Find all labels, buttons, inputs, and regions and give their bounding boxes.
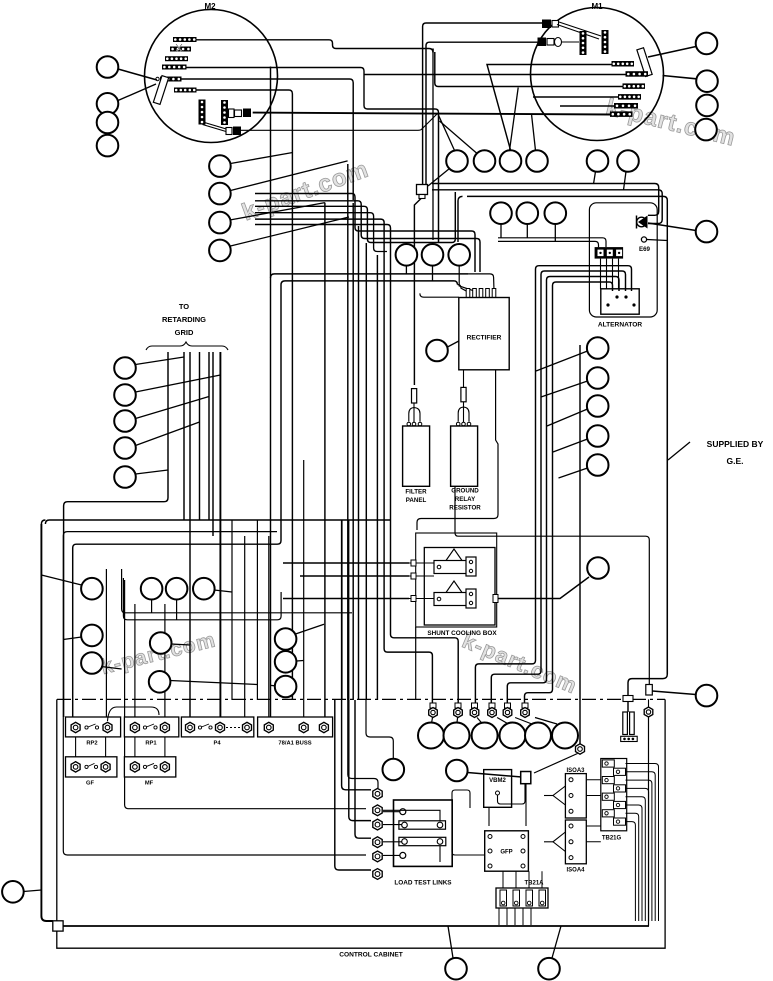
callout circle top-mid 1	[446, 150, 468, 172]
leader to VBM2 connector	[468, 773, 522, 778]
callout circle right-top 3	[696, 95, 718, 117]
wire x244 down to P4	[244, 536, 246, 717]
callout circle top-mid 2	[474, 150, 496, 172]
wire connector down to GFP right	[525, 784, 527, 826]
terminal bolt 5 on cabinet line	[505, 703, 511, 708]
callout circle near VBM2 b	[446, 760, 468, 782]
svg-text:SUPPLIED BY: SUPPLIED BY	[707, 439, 764, 449]
wire M1-H5 left stub	[560, 105, 614, 107]
leader mid-left 3	[231, 203, 325, 220]
bus pair from connector to E69 corner (upper)	[432, 184, 659, 216]
hex terminal LTL-5	[373, 851, 382, 862]
callout circle top-mid 4	[526, 150, 548, 172]
terminal strip M2-S6	[174, 88, 197, 93]
wire LTL-5 top hex	[348, 700, 378, 788]
TB21G terminal strip	[601, 759, 627, 831]
staircase wire 5 to filter-area vertical	[255, 219, 432, 703]
svg-text:E69: E69	[639, 246, 651, 253]
VBM2 connector square	[521, 772, 531, 784]
svg-text:P4: P4	[213, 741, 221, 747]
callout circle right-mid 4	[587, 425, 609, 447]
terminal bolt 4 on cabinet line	[489, 703, 495, 708]
svg-text:RP1: RP1	[145, 741, 157, 747]
horizontal feeder into shunt 2	[300, 575, 409, 577]
terminal strip P4	[181, 717, 253, 737]
retarding grid callout 4	[114, 437, 136, 459]
leader from circle 1 into M2 (to brush bar contact)	[118, 69, 157, 80]
svg-text:GFP: GFP	[500, 850, 512, 856]
shunt cooling box enclosure	[416, 533, 497, 627]
wire x106 down	[105, 569, 107, 717]
ISOA4 box	[565, 820, 586, 864]
terminal bolt 3 on cabinet line	[472, 703, 478, 708]
stub from circle 2 down to bus	[526, 224, 528, 238]
wire inner-area to load links (via x63)	[63, 532, 366, 855]
svg-text:RECTIFIER: RECTIFIER	[467, 335, 502, 342]
feeder stub x438 thick ending at circle	[438, 116, 440, 242]
alternator box	[601, 289, 639, 314]
leader right-top 1 to M1 bar	[648, 47, 696, 58]
left main vertical bus x41 (thick)	[41, 524, 52, 921]
vertical terminal strip M2-V2	[221, 100, 228, 125]
bottom bus wire y926	[63, 925, 649, 927]
wire E69 dot to bus	[647, 240, 667, 241]
filter panel box	[403, 426, 430, 486]
callout circle mid-left 3	[209, 212, 231, 234]
wire x257 down	[256, 520, 258, 700]
leader bolt 2 to circle	[456, 718, 459, 725]
link bar 2	[399, 837, 446, 845]
leader bottom 2	[552, 926, 561, 958]
detail circle M2 outline	[145, 10, 278, 143]
rectifier pins	[466, 289, 470, 298]
callout circle row left-top 1	[97, 56, 119, 78]
callout circle lower-right g3	[275, 676, 297, 698]
terminal bolt right of fuse	[644, 707, 653, 717]
feeder wire alternator-to-shunt 3	[507, 277, 619, 704]
callout circle left of rectifier 3	[448, 244, 470, 266]
leader bolt 5 to circle	[515, 718, 532, 725]
alternator feeder drops from strip	[600, 259, 602, 289]
shunt input stub 1	[409, 562, 434, 564]
jumper RP2 to RP1	[108, 707, 160, 721]
callout circle mid-left 2	[209, 183, 231, 205]
wire ground-relay to right terminal (via y536)	[455, 486, 649, 686]
bus line to right long vertical x667	[467, 196, 667, 695]
wire M2-J2 jog line	[241, 114, 437, 130]
terminal strip M2-S4	[162, 65, 187, 70]
wire x134 down to RP1	[134, 604, 136, 717]
wire rectifier bottom to shunt enclosure via y518	[417, 370, 498, 530]
leader to top-mid 1 from vertical bus	[438, 113, 456, 152]
vertical bus pair corner to M1 connector J2	[426, 42, 538, 185]
terminal strip RP2	[66, 717, 121, 737]
retarding grid drop wire x199	[199, 352, 201, 520]
callout circle right-bottom	[696, 685, 718, 707]
leader rg5	[136, 470, 169, 474]
fuse above filter panel	[412, 389, 417, 403]
leader cabinet-left circle	[24, 890, 42, 892]
callout circle row left of rectifier 1	[396, 244, 418, 266]
vertical terminal strip M1-V2	[602, 30, 609, 54]
TB21A drop wires	[498, 908, 500, 925]
leader below-M1-left stub	[594, 172, 596, 185]
leader g2	[296, 660, 303, 663]
wire x268 down to 78A1	[268, 536, 270, 717]
callout circle lower-left row b1	[141, 578, 163, 600]
svg-text:G.E.: G.E.	[726, 456, 743, 466]
shunt input stub 2	[409, 575, 434, 577]
callout circle bottom 1	[445, 958, 467, 980]
wire link bar 2 right post down	[439, 846, 441, 862]
retarding grid callout 2	[114, 384, 136, 406]
leader bolt 3 to circle	[477, 718, 483, 725]
wire y619 from x123 corner to inner edge stub	[123, 578, 281, 620]
callout circle left of rectifier 2	[422, 244, 444, 266]
leader top-mid 3 riser	[510, 88, 519, 151]
leader from circle 2 into M2	[118, 84, 156, 101]
fuse assembly right (twin tubes)	[623, 712, 628, 735]
link bar 1	[399, 821, 446, 829]
wire from filter feeder to rectifier corner	[420, 293, 459, 297]
wire M2-S4 staircase to rectifier feed	[187, 68, 439, 117]
wire rectifier to ground fuse	[463, 370, 465, 387]
junction square on bottom bus	[53, 921, 63, 931]
load test links box	[394, 800, 453, 866]
staircase wire 6 to shunt-area vertical	[255, 225, 458, 704]
svg-text:VBM2: VBM2	[489, 778, 506, 784]
wire x124 to load links (y810)	[125, 580, 366, 809]
callout circle cabinet left	[2, 881, 24, 903]
callout circle left 2	[97, 93, 119, 115]
contact in links box bottom	[400, 852, 406, 858]
TB21A terminal block	[496, 888, 548, 908]
svg-text:RESISTOR: RESISTOR	[449, 505, 481, 512]
inner enclosure box	[73, 281, 458, 717]
long vertical x377	[376, 255, 378, 700]
leader bolt 1 to circle	[431, 718, 432, 725]
retarding grid drop wire x209	[208, 352, 210, 520]
ground relay resistor box	[451, 426, 478, 486]
callout circle right-mid 1	[587, 337, 609, 359]
terminal strip 78/A1 BUSS	[258, 717, 333, 737]
detail circle M1 outline	[531, 8, 664, 141]
horizontal feeder into shunt 3	[283, 598, 409, 600]
leader right-mid 1	[536, 351, 588, 371]
wire fuse base down to bottom bus	[648, 717, 650, 926]
callout circle above rectifier 3	[545, 202, 567, 224]
rectifier pin feed from inner box edge	[457, 285, 468, 299]
leader e	[171, 644, 190, 645]
ISOA3 box	[565, 774, 586, 818]
leader c	[63, 637, 81, 640]
connector assembly M2-J1	[229, 109, 235, 118]
stem from square to fuse	[627, 702, 629, 713]
feeder wire alternator-to-shunt 1	[475, 266, 631, 703]
callout circle right-top 4	[695, 119, 717, 141]
ISOA3 bracket	[553, 786, 565, 805]
retarding grid callout 5	[114, 466, 136, 488]
wire into LTL-6	[335, 700, 371, 870]
leader rg3	[136, 397, 210, 419]
wire GFP left loop	[452, 790, 485, 855]
big callout circle bottom-row 5	[525, 723, 551, 749]
ground relay pin fan	[458, 402, 469, 422]
leader right-mid 3	[547, 409, 588, 426]
terminal strip M2-S1	[173, 37, 197, 42]
callout circle right-mid 2	[587, 367, 609, 389]
callout circle bottom 2	[538, 958, 560, 980]
control cabinet top border (dash-dot)	[57, 698, 665, 700]
connector assembly M2-J2	[203, 125, 227, 132]
wire M1-H3 to riser arc	[435, 52, 623, 87]
retarding grid drop wire x168	[64, 352, 168, 717]
svg-text:CONTROL CABINET: CONTROL CABINET	[339, 952, 403, 959]
contact in links box top	[400, 809, 406, 815]
leader circle-a riser	[366, 700, 393, 759]
big callout circle bottom-row 2	[444, 723, 470, 749]
outer enclosure top edge branch	[271, 274, 469, 278]
brace for retarding grid	[146, 342, 228, 350]
staircase wire 3	[255, 192, 455, 243]
terminal strip M2-S2	[170, 47, 191, 52]
feeder stub x433 ending above circle	[432, 49, 434, 241]
big callout circle bottom-row 6	[552, 723, 578, 749]
svg-text:RP2: RP2	[86, 741, 97, 747]
connector T4 at top of rectifier feeders	[417, 185, 428, 195]
leader supplied-by-GE	[668, 442, 690, 460]
callout circle lower-right g2	[275, 651, 297, 673]
wire from LTL-2 to link bar right post	[383, 810, 440, 821]
GF drop wires	[75, 737, 77, 757]
callout circle right-mid 3	[587, 395, 609, 417]
wire x232 down	[231, 520, 233, 700]
long vertical x358	[358, 226, 360, 700]
callout circle lower-left row b2	[166, 578, 188, 600]
retarding grid drop wire x184	[183, 352, 185, 520]
callout circle near VBM2	[383, 759, 405, 781]
links internal wires	[383, 811, 400, 813]
retarding grid callout 1	[114, 357, 136, 379]
outer enclosure box (control group)	[270, 67, 272, 718]
big callout circle bottom-row 3	[472, 723, 498, 749]
ISOA4 bracket	[553, 832, 565, 852]
VBM2 internal contact	[496, 791, 500, 795]
svg-text:FILTER: FILTER	[405, 489, 427, 496]
leader g3	[271, 684, 276, 686]
VBM2 box	[484, 770, 512, 808]
retarding grid drop wire x220 (thick)	[219, 352, 221, 717]
wire M1-H2 bus (thick)	[364, 74, 626, 76]
svg-text:GRID: GRID	[175, 328, 194, 337]
leader rg1	[136, 357, 185, 365]
big callout circle bottom-row 1	[418, 723, 444, 749]
leader d	[101, 667, 121, 670]
feeder wire alternator-to-shunt 2	[491, 271, 625, 703]
fuse above ground relay resistor	[461, 387, 466, 401]
staircase wire 2	[255, 201, 480, 272]
connector assembly M1-J2	[538, 38, 547, 47]
leader bottom 1	[448, 926, 453, 958]
leader b2 stub	[176, 600, 178, 620]
leader mid-left 2	[231, 161, 348, 191]
wires ISOA to TB21G	[586, 780, 601, 842]
long vertical x347 (from M2 S5-bus) to load links	[347, 164, 349, 700]
leader top-mid 1 to connector	[428, 169, 450, 187]
hex terminal LTL-3	[373, 819, 382, 830]
long vertical x325 to 78A1 BUSS	[324, 203, 326, 717]
leader top-mid 2 diagonal	[440, 121, 477, 153]
long vertical x366	[365, 243, 367, 700]
terminal strip above alternator (3 windows)	[595, 247, 624, 259]
leader mid-left 4	[231, 217, 350, 246]
terminal strip M1-H5	[614, 103, 638, 109]
svg-text:78/A1 BUSS: 78/A1 BUSS	[278, 741, 311, 747]
enclosure box around alternator	[589, 203, 657, 317]
callout circle lower-left d	[81, 652, 103, 674]
bolt on x580	[576, 744, 585, 754]
wire M2-S1 to vertical bus x433	[197, 40, 434, 53]
svg-text:GF: GF	[86, 781, 95, 787]
shunt output to callout circle	[495, 577, 589, 599]
retarding grid drop wire x190	[189, 352, 191, 717]
terminal strip M1-H6	[610, 111, 633, 117]
wire below shunt enclosure x415	[415, 627, 417, 699]
hex terminal LTL-4	[373, 837, 382, 848]
leader right-mid 4	[553, 439, 588, 452]
main horizontal bus y520	[45, 520, 390, 524]
callout circle lower-left row b3	[193, 578, 215, 600]
wire M2-S6 to long vertical x292 down to cabinet	[197, 90, 293, 699]
callout circle lower-mid f	[149, 671, 171, 693]
wire diode to callout circle right	[648, 223, 696, 231]
rectifier box U1	[459, 298, 509, 370]
shunt element 2	[434, 593, 472, 606]
terminal bolt 6 on cabinet line	[522, 703, 528, 708]
filter panel pin fan	[409, 403, 420, 422]
retarding grid callout 3	[114, 410, 136, 432]
shunt element 2 terminal block	[466, 589, 476, 608]
wire M1-H1 to riser	[487, 65, 612, 151]
callout circle below M1 left	[587, 150, 609, 172]
terminal bolt 1 on cabinet line	[430, 703, 436, 708]
svg-text:M2: M2	[204, 2, 216, 11]
leader f	[170, 681, 257, 685]
leader rg2	[136, 375, 221, 392]
callout circle right-top 2	[696, 70, 718, 92]
shunt element 1 terminal block	[466, 557, 476, 576]
leader b1 stub	[151, 600, 153, 613]
terminal block right	[646, 685, 653, 696]
fuse base strip	[621, 736, 638, 741]
svg-text:ISOA4: ISOA4	[566, 868, 585, 874]
callout circle mid-left 1	[209, 155, 231, 177]
stub circle r2 down	[432, 266, 434, 281]
retarding grid drop wire x213	[212, 352, 214, 536]
feeder wire alternator-to-shunt 5	[579, 345, 581, 744]
leader b3 stub	[214, 590, 232, 592]
staircase wire 1	[255, 194, 475, 273]
callout circle left 3	[97, 112, 119, 134]
diode symbol E69	[637, 217, 647, 227]
terminal strip M1-H4	[618, 94, 641, 100]
wire M2-S5 to long vertical x353	[182, 79, 354, 200]
bus pair lower	[432, 190, 662, 224]
leader below-M1-right stub	[624, 172, 627, 191]
shunt cooling box	[424, 548, 495, 626]
callout circle right-top 1	[696, 33, 718, 55]
terminal strip M1-H2	[626, 71, 649, 77]
callout circle above rectifier 2	[517, 202, 539, 224]
callout circle lower-left c	[81, 625, 103, 647]
wire M1-H4 left stub	[533, 96, 618, 98]
stub circle r1 down	[405, 266, 407, 274]
control cabinet left border	[56, 699, 58, 921]
svg-text:TB21A: TB21A	[524, 881, 544, 887]
terminal strip M1-H3	[623, 83, 646, 89]
svg-text:RETARDING: RETARDING	[162, 315, 206, 324]
terminal bolt 2 on cabinet line	[455, 703, 461, 708]
rectifier pin feed from circle-3 stub	[459, 266, 474, 298]
feeder wire alternator-to-shunt 4	[525, 282, 613, 703]
wire M2-J1 to M1-H6 (main armature bus)	[253, 113, 611, 115]
svg-text:TB21G: TB21G	[602, 836, 622, 842]
brush holder bar (diagonal) in M1	[637, 48, 652, 77]
horizontal feeder into shunt 1	[283, 562, 409, 564]
vertical bus pair left + top run to M1 connector J1	[423, 23, 542, 185]
callout circle right-mid 5	[587, 454, 609, 476]
terminal strip M2-S5	[160, 77, 182, 82]
terminal strip GF	[66, 757, 117, 777]
leader a	[41, 575, 81, 585]
callout circle row above rectifier 1	[490, 202, 512, 224]
callout circle right of E69	[696, 221, 718, 243]
MF drop wires	[134, 737, 136, 757]
connector assembly M1-J1	[542, 20, 551, 29]
stub from circle 3 down to bus	[554, 224, 556, 241]
svg-text:TO: TO	[179, 302, 189, 311]
terminal strip M1-H1	[612, 61, 635, 67]
connector stem / filter feeder x414	[414, 199, 421, 386]
wire VBM2 contact to connector loop	[498, 784, 526, 804]
shunt input stub 3	[409, 598, 434, 600]
callout circle left 4	[97, 135, 119, 157]
callout circle lower-mid e	[150, 632, 172, 654]
vertical terminal strip M1-V1	[580, 31, 587, 55]
brush holder bar (diagonal) in M2	[153, 76, 168, 105]
stub from circle 1 down to bus	[500, 224, 502, 238]
leader right-mid 5	[559, 468, 588, 478]
long vertical right bus top segment	[666, 242, 668, 674]
big callout circle bottom-row 4	[500, 723, 526, 749]
leader bolt 6 to circle	[535, 718, 557, 725]
long vertical x354	[352, 203, 354, 700]
feeder pair to terminal strip upper	[498, 238, 606, 247]
rectifier pin feed from outer box edge	[468, 274, 494, 298]
wire into LTL-1	[342, 520, 371, 790]
control cabinet bottom region	[57, 699, 665, 948]
callout circle lower-right g1	[275, 628, 297, 650]
terminal strip M2-S3	[165, 56, 188, 61]
left end of bus line x462 drop onto circle	[458, 196, 463, 242]
hex terminal LTL-6	[373, 869, 382, 880]
staircase wire 4	[255, 213, 387, 252]
wire x164 down to RP1	[164, 604, 166, 717]
leader g1	[296, 624, 325, 634]
GFP box	[485, 831, 529, 871]
wire x303 down to 78A1	[303, 460, 305, 717]
vertical terminal strip M2-V1	[199, 100, 206, 125]
